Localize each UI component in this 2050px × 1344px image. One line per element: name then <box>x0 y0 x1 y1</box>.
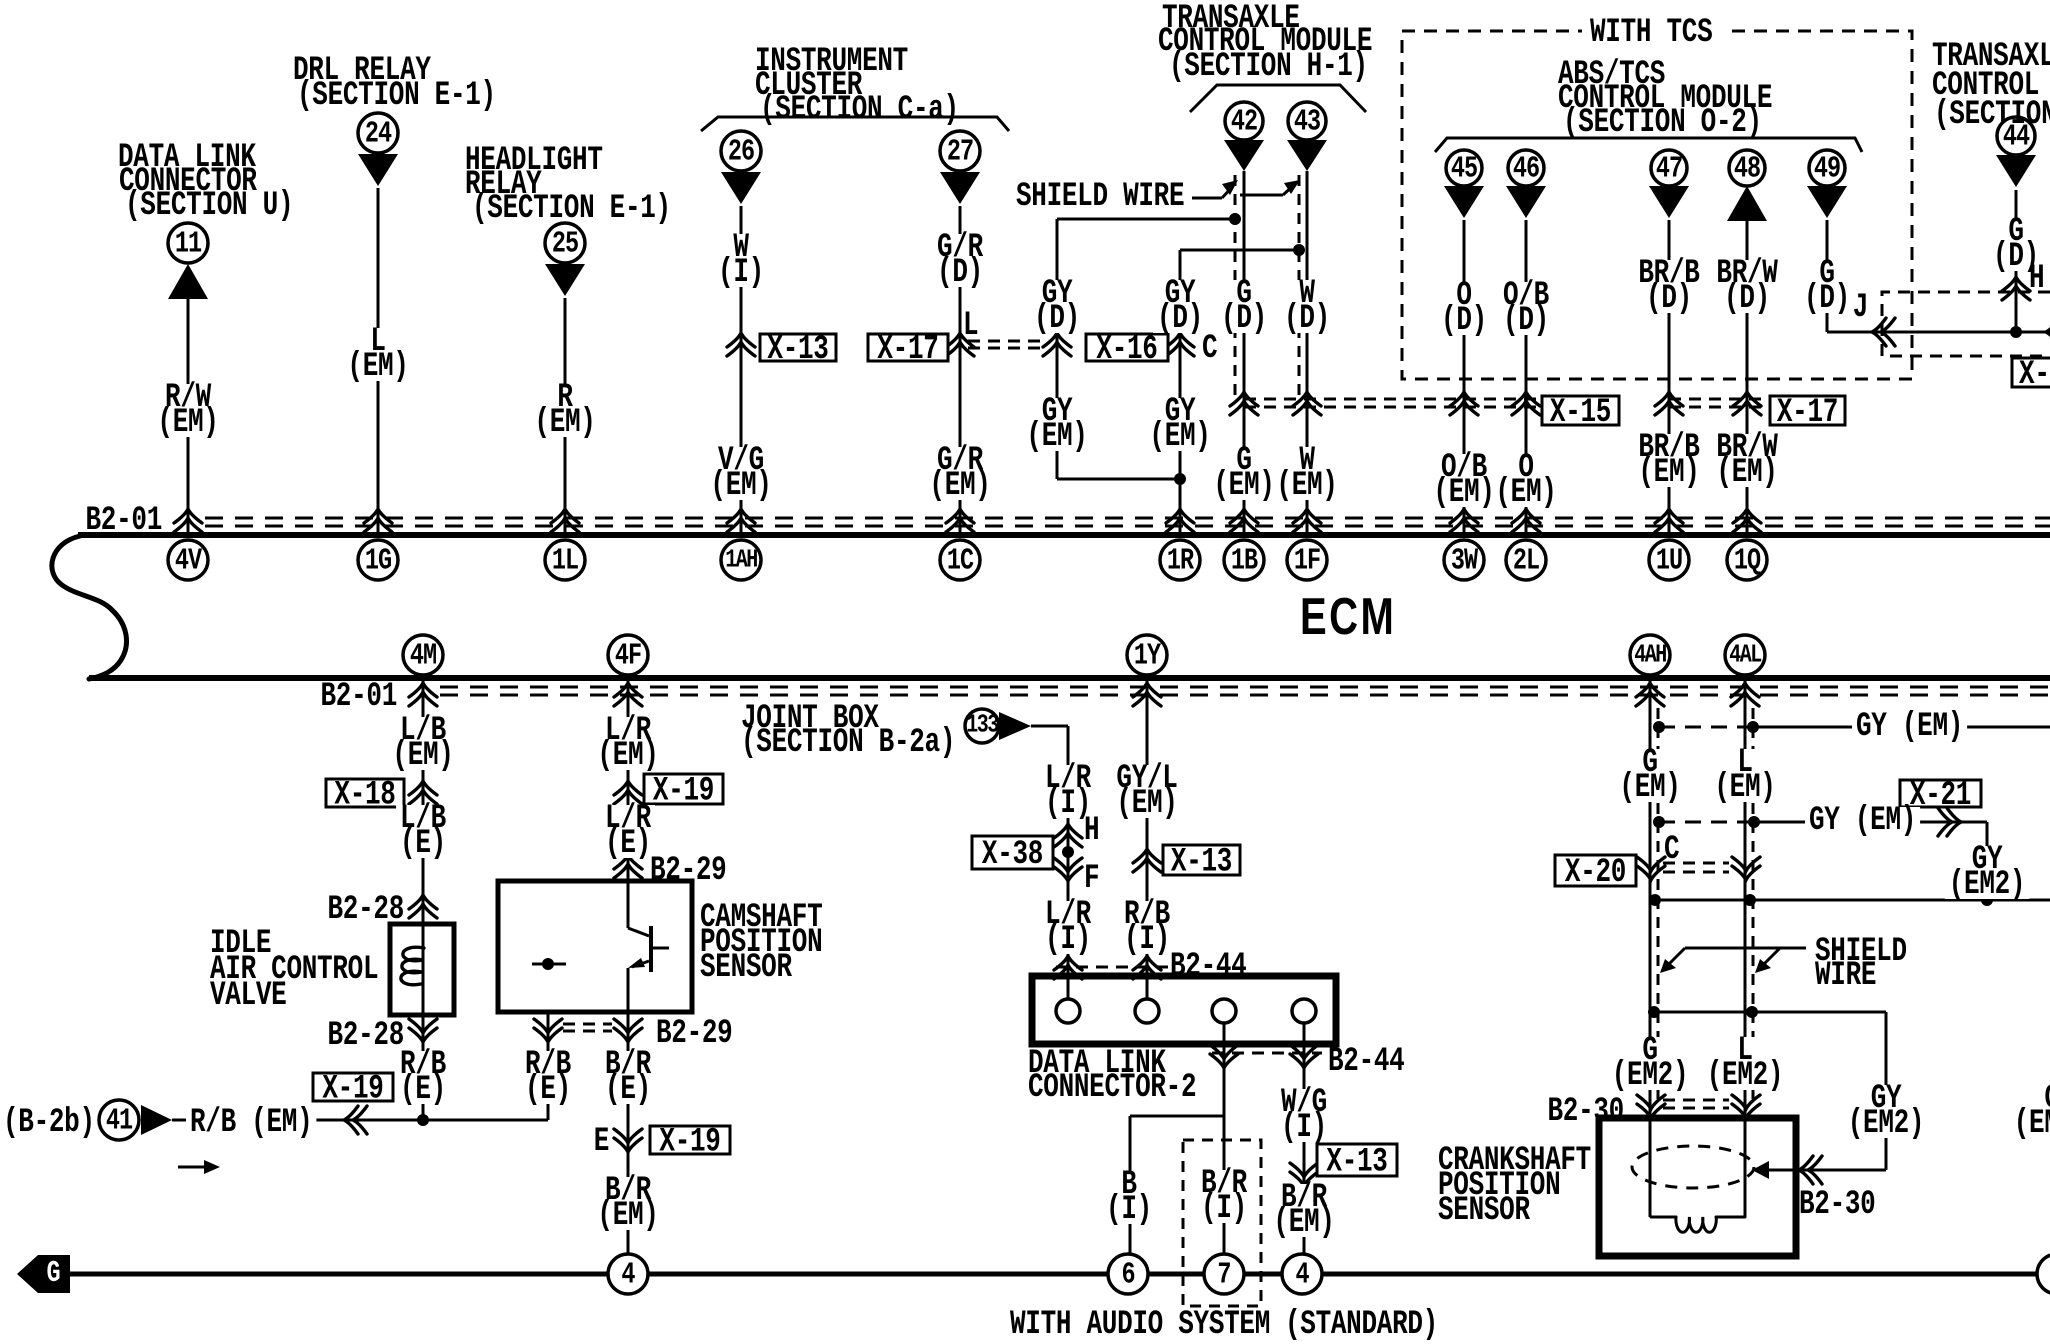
svg-text:(EM): (EM) <box>1638 454 1699 492</box>
svg-text:(EM2): (EM2) <box>1612 1057 1688 1095</box>
svg-text:(B-2b): (B-2b) <box>3 1104 95 1142</box>
svg-text:(SECTION O-1): (SECTION O-1) <box>1934 96 2050 134</box>
svg-text:X-16: X-16 <box>1096 331 1157 369</box>
svg-text:48: 48 <box>1734 152 1760 187</box>
svg-text:H: H <box>2029 260 2044 298</box>
svg-text:(EM): (EM) <box>929 467 990 505</box>
svg-text:C: C <box>1664 831 1680 869</box>
svg-text:X-18: X-18 <box>334 777 395 815</box>
svg-text:(E): (E) <box>605 1071 651 1109</box>
svg-text:H: H <box>1084 812 1099 850</box>
svg-text:X-13: X-13 <box>1171 844 1232 882</box>
svg-text:(EM): (EM) <box>597 737 658 775</box>
svg-text:B2-29: B2-29 <box>656 1015 732 1053</box>
svg-text:WIRE: WIRE <box>1815 957 1876 995</box>
svg-text:(EM): (EM) <box>1714 769 1775 807</box>
svg-text:J: J <box>1853 289 1868 327</box>
svg-text:49: 49 <box>1814 152 1840 187</box>
svg-text:(D): (D) <box>1724 280 1770 318</box>
svg-text:7: 7 <box>1217 1258 1230 1293</box>
svg-text:(I): (I) <box>1201 1190 1247 1228</box>
svg-text:B2-29: B2-29 <box>650 852 726 890</box>
svg-text:41: 41 <box>106 1104 133 1139</box>
svg-text:X-13: X-13 <box>1326 1144 1387 1182</box>
svg-text:27: 27 <box>947 135 973 170</box>
svg-text:B2-30: B2-30 <box>1799 1186 1875 1224</box>
svg-text:(I): (I) <box>1124 921 1170 959</box>
svg-text:1B: 1B <box>1231 544 1258 579</box>
svg-text:(EM): (EM) <box>392 737 453 775</box>
svg-text:(D): (D) <box>1034 300 1080 338</box>
svg-text:X-17: X-17 <box>877 331 938 369</box>
svg-text:X-21: X-21 <box>1910 777 1971 815</box>
svg-text:(I): (I) <box>1106 1191 1152 1229</box>
svg-text:(D): (D) <box>1503 302 1549 340</box>
svg-text:26: 26 <box>728 135 754 170</box>
svg-text:(EM2): (EM2) <box>1707 1057 1783 1095</box>
svg-text:1Q: 1Q <box>1734 544 1761 579</box>
svg-text:47: 47 <box>1656 152 1682 187</box>
svg-text:SHIELD WIRE: SHIELD WIRE <box>1016 178 1184 216</box>
svg-text:(SECTION E-1): (SECTION E-1) <box>472 190 671 228</box>
svg-text:B2-44: B2-44 <box>1328 1043 1405 1081</box>
svg-text:4AH: 4AH <box>1634 640 1666 669</box>
svg-text:(E): (E) <box>605 825 651 863</box>
svg-text:(SECTION O-2): (SECTION O-2) <box>1563 104 1762 142</box>
svg-text:(EM): (EM) <box>534 404 595 442</box>
svg-text:(EM): (EM) <box>1116 785 1177 823</box>
svg-text:(E): (E) <box>400 1071 446 1109</box>
svg-text:(EM2): (EM2) <box>2014 1105 2050 1143</box>
svg-text:R/B (EM): R/B (EM) <box>190 1104 312 1142</box>
svg-text:1L: 1L <box>552 544 578 579</box>
svg-text:(EM): (EM) <box>1149 418 1210 456</box>
svg-text:(EM): (EM) <box>710 467 771 505</box>
svg-text:X-19: X-19 <box>653 773 714 811</box>
svg-text:(D): (D) <box>1221 300 1267 338</box>
svg-text:(D): (D) <box>937 254 983 292</box>
svg-text:(SECTION H-1): (SECTION H-1) <box>1169 48 1368 86</box>
svg-text:X-13: X-13 <box>767 331 828 369</box>
svg-text:(SECTION C-a): (SECTION C-a) <box>760 91 959 129</box>
svg-text:B2-28: B2-28 <box>328 891 404 929</box>
svg-text:(E): (E) <box>525 1071 571 1109</box>
svg-text:B2-44: B2-44 <box>1170 948 1247 986</box>
svg-text:1U: 1U <box>1656 544 1682 579</box>
svg-text:1Y: 1Y <box>1134 639 1162 674</box>
svg-text:(D): (D) <box>1284 300 1330 338</box>
svg-text:4F: 4F <box>615 639 641 674</box>
svg-text:X-15: X-15 <box>1550 394 1611 432</box>
svg-text:B2-01: B2-01 <box>86 502 162 540</box>
svg-text:(SECTION B-2a): (SECTION B-2a) <box>741 724 955 762</box>
svg-text:(EM): (EM) <box>1619 769 1680 807</box>
svg-text:GY (EM): GY (EM) <box>1809 802 1916 840</box>
svg-text:L: L <box>963 307 978 345</box>
svg-text:X-20: X-20 <box>1565 854 1626 892</box>
svg-text:SENSOR: SENSOR <box>1438 1192 1531 1230</box>
svg-text:25: 25 <box>552 227 578 262</box>
svg-text:(EM2): (EM2) <box>1848 1105 1924 1143</box>
svg-text:CONNECTOR-2: CONNECTOR-2 <box>1028 1069 1196 1107</box>
svg-text:(D): (D) <box>1441 302 1487 340</box>
svg-text:1C: 1C <box>947 544 974 579</box>
svg-text:E: E <box>594 1123 609 1161</box>
svg-text:4M: 4M <box>410 639 437 674</box>
svg-text:G: G <box>46 1256 60 1291</box>
svg-text:1AH: 1AH <box>725 545 757 574</box>
svg-text:(EM): (EM) <box>1716 454 1777 492</box>
svg-text:(STANDARD): (STANDARD) <box>1285 1306 1438 1344</box>
svg-text:(EM): (EM) <box>1213 467 1274 505</box>
svg-text:24: 24 <box>365 117 392 152</box>
svg-text:X-19: X-19 <box>659 1124 720 1162</box>
svg-text:(SECTION U): (SECTION U) <box>125 187 293 225</box>
svg-text:B2-30: B2-30 <box>1548 1093 1624 1131</box>
svg-text:4AL: 4AL <box>1729 640 1761 669</box>
svg-text:4: 4 <box>621 1258 635 1293</box>
svg-text:X-17: X-17 <box>1777 394 1838 432</box>
svg-text:(EM): (EM) <box>347 348 408 386</box>
svg-text:1R: 1R <box>1167 544 1195 579</box>
svg-text:B2-01: B2-01 <box>321 678 397 716</box>
svg-text:46: 46 <box>1513 152 1539 187</box>
svg-text:C: C <box>1202 330 1218 368</box>
svg-text:1G: 1G <box>365 544 392 579</box>
svg-text:VALVE: VALVE <box>210 977 286 1015</box>
svg-text:(EM): (EM) <box>1433 474 1494 512</box>
svg-text:(I): (I) <box>1045 921 1091 959</box>
svg-text:(EM): (EM) <box>1026 418 1087 456</box>
svg-text:(EM): (EM) <box>1495 474 1556 512</box>
svg-text:WITH AUDIO SYSTEM: WITH AUDIO SYSTEM <box>1010 1306 1270 1344</box>
svg-text:(I): (I) <box>718 254 764 292</box>
svg-text:(EM2): (EM2) <box>1949 866 2025 904</box>
svg-text:ECM: ECM <box>1300 587 1396 645</box>
svg-text:X-38: X-38 <box>982 836 1043 874</box>
svg-text:(EM): (EM) <box>157 404 218 442</box>
svg-text:(D): (D) <box>1157 300 1203 338</box>
svg-text:45: 45 <box>1451 152 1477 187</box>
svg-text:SENSOR: SENSOR <box>700 949 793 987</box>
svg-text:X-19: X-19 <box>322 1071 383 1109</box>
svg-text:(EM): (EM) <box>1276 467 1337 505</box>
svg-text:GY (EM): GY (EM) <box>1856 708 1963 746</box>
svg-text:(E): (E) <box>400 825 446 863</box>
svg-text:F: F <box>1084 860 1099 898</box>
svg-text:2L: 2L <box>1513 544 1539 579</box>
svg-text:(SECTION E-1): (SECTION E-1) <box>297 77 496 115</box>
svg-text:(D): (D) <box>1804 280 1850 318</box>
svg-text:44: 44 <box>2003 120 2030 155</box>
svg-text:WITH TCS: WITH TCS <box>1590 14 1713 52</box>
svg-text:43: 43 <box>1294 105 1320 140</box>
svg-text:B2-28: B2-28 <box>328 1017 404 1055</box>
svg-text:(I): (I) <box>1281 1109 1327 1147</box>
svg-text:6: 6 <box>1121 1258 1134 1293</box>
svg-text:42: 42 <box>1231 105 1257 140</box>
svg-text:4V: 4V <box>175 544 203 579</box>
svg-text:(EM): (EM) <box>1273 1204 1334 1242</box>
svg-text:1F: 1F <box>1294 544 1320 579</box>
svg-text:11: 11 <box>175 227 202 262</box>
svg-text:133: 133 <box>966 710 998 739</box>
svg-text:4: 4 <box>1295 1258 1309 1293</box>
svg-text:3W: 3W <box>1451 544 1479 579</box>
svg-text:(EM): (EM) <box>597 1197 658 1235</box>
svg-text:X-2: X-2 <box>2019 356 2050 394</box>
svg-text:(D): (D) <box>1646 280 1692 318</box>
